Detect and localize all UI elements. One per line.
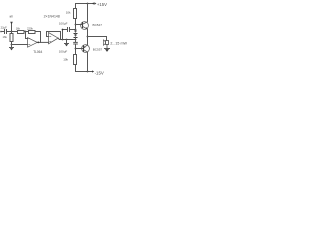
svg-text:TL064: TL064	[33, 50, 42, 54]
node K junction (Q2 base node)	[75, 48, 77, 50]
svg-text:2...15 mW: 2...15 mW	[110, 42, 127, 46]
transistor Q1 BC547	[81, 22, 89, 30]
wire C1 to node A	[7, 31, 18, 33]
wire B output	[58, 38, 75, 39]
wire speaker to ground	[106, 45, 108, 49]
svg-text:100µF: 100µF	[59, 21, 68, 25]
svg-text:-15V: -15V	[95, 70, 104, 75]
capacitor C2 100uF	[67, 28, 69, 32]
op-amp U1A	[28, 38, 38, 48]
node B junction	[11, 44, 13, 46]
resistor R2 16k horizontal	[18, 31, 25, 34]
diode D1	[74, 31, 77, 34]
node J junction (Q1 base node)	[75, 24, 77, 26]
node I junction	[87, 3, 89, 5]
node G junction	[75, 29, 77, 31]
resistor R3 220k horizontal	[29, 31, 36, 34]
tiny label above arrow	[10, 16, 11, 18]
node M junction (output)	[87, 36, 89, 38]
wire output to speaker	[88, 37, 107, 41]
resistor R1 16k vertical	[11, 32, 13, 34]
wire feedback drop to A output	[40, 32, 42, 43]
wire A output to op-amp B	[37, 41, 48, 43]
node F junction	[66, 39, 68, 41]
svg-text:16k: 16k	[16, 26, 21, 30]
svg-text:16k: 16k	[3, 35, 8, 39]
node E junction	[62, 39, 64, 41]
svg-text:220k: 220k	[27, 26, 33, 30]
wire R1 to ground node	[11, 42, 13, 45]
wire input to C1	[1, 31, 5, 33]
resistor R5 10k vertical	[74, 55, 77, 65]
node H junction	[75, 39, 77, 41]
svg-text:BC547: BC547	[93, 23, 103, 27]
svg-text:22µF: 22µF	[1, 26, 8, 30]
top supply rail	[76, 3, 94, 5]
bottom supply rail	[76, 71, 93, 73]
op-amp U1B	[49, 33, 59, 44]
wire riser to top coupling cap	[63, 30, 68, 40]
ground GND2	[66, 40, 68, 44]
ground GND1	[11, 45, 13, 48]
wire B feedback loop	[47, 32, 61, 40]
wire B inverting input	[47, 36, 49, 38]
capacitor C1 22uF	[4, 30, 6, 34]
svg-text:2×1N4148: 2×1N4148	[44, 15, 60, 19]
off-board feed arrow into input node	[11, 25, 13, 32]
svg-text:+15V: +15V	[97, 2, 107, 7]
node N junction	[62, 29, 64, 31]
capacitor C3 100uF vertical	[75, 40, 77, 43]
svg-text:10k: 10k	[66, 11, 71, 15]
wire node C down to op-amp A inverting input	[26, 32, 28, 39]
svg-text:BC557: BC557	[93, 48, 103, 52]
input terminal	[0, 31, 2, 33]
wire C2 to node G	[70, 29, 76, 31]
supply terminal arrow	[92, 70, 94, 72]
wire R5 to bottom rail	[75, 65, 77, 72]
node L junction	[87, 71, 89, 73]
resistor R4 10k vertical	[75, 4, 77, 9]
svg-text:100µF: 100µF	[59, 50, 68, 54]
svg-text:10k: 10k	[63, 58, 68, 62]
ground GND3	[105, 48, 110, 50]
wire ground node to op-amp A + input	[12, 44, 28, 46]
wire R4 to node J	[75, 19, 77, 31]
wire R3 to feedback drop	[35, 31, 41, 33]
supply terminal arrow	[93, 3, 95, 5]
node A junction	[11, 31, 13, 33]
diode D2	[75, 34, 77, 35]
node D junction	[37, 42, 39, 44]
loudspeaker LS1	[106, 41, 109, 45]
transistor Q2 BC557	[82, 45, 90, 53]
node C junction	[25, 31, 27, 33]
